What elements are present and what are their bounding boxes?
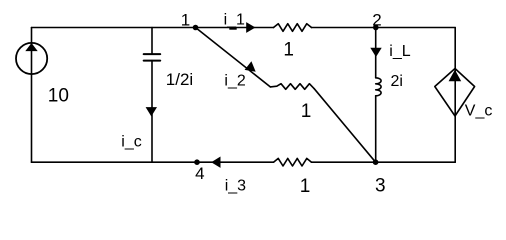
svg-text:2i: 2i [391, 73, 403, 90]
svg-text:i_1: i_1 [224, 12, 245, 29]
svg-text:2: 2 [372, 10, 381, 29]
svg-text:1: 1 [181, 11, 190, 30]
svg-text:i_L: i_L [389, 43, 410, 60]
svg-text:4: 4 [195, 164, 204, 183]
svg-text:1: 1 [283, 39, 294, 60]
svg-text:1: 1 [300, 176, 311, 197]
svg-text:10: 10 [48, 86, 69, 107]
svg-text:3: 3 [375, 176, 386, 197]
svg-text:1: 1 [301, 101, 312, 122]
svg-text:1/2i: 1/2i [166, 70, 193, 89]
svg-text:i_c: i_c [121, 133, 141, 150]
svg-text:i_2: i_2 [224, 72, 245, 89]
svg-text:V_c: V_c [465, 103, 493, 120]
svg-text:i_3: i_3 [225, 178, 246, 195]
